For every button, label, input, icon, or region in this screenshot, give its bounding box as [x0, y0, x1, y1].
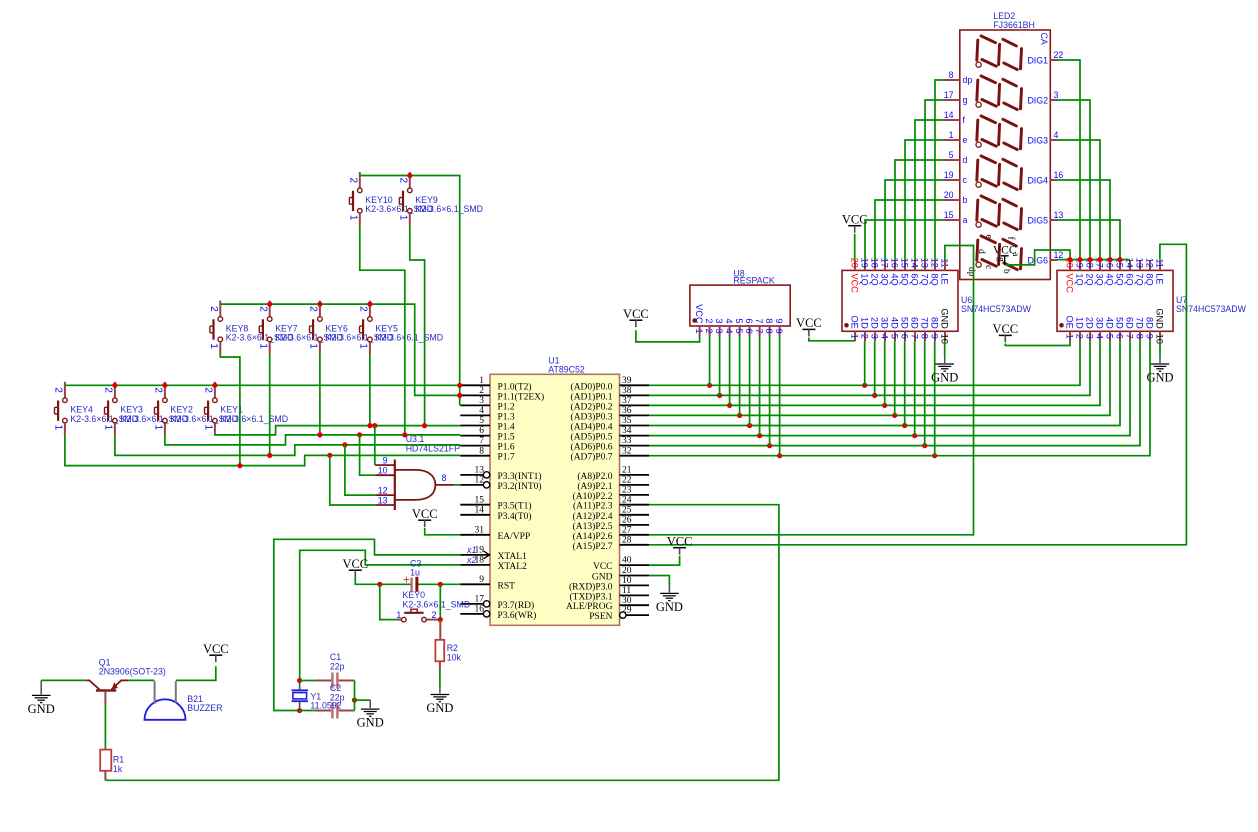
svg-text:13: 13: [1135, 258, 1145, 268]
svg-text:4: 4: [724, 329, 734, 334]
svg-text:VCC: VCC: [1065, 273, 1075, 293]
svg-text:5: 5: [734, 318, 744, 323]
svg-text:P3.2(INT0): P3.2(INT0): [498, 481, 542, 492]
svg-text:5Q: 5Q: [1115, 273, 1125, 285]
svg-text:c: c: [983, 265, 993, 269]
svg-text:P1.5: P1.5: [498, 433, 515, 443]
svg-text:+: +: [403, 575, 410, 587]
svg-text:8: 8: [764, 329, 774, 334]
svg-text:VCC: VCC: [412, 507, 438, 521]
svg-text:4: 4: [1095, 334, 1105, 339]
svg-text:g: g: [963, 95, 968, 105]
svg-text:b: b: [1001, 269, 1011, 274]
svg-text:7: 7: [479, 436, 484, 446]
svg-text:GND: GND: [592, 573, 613, 583]
svg-text:(AD1)P0.1: (AD1)P0.1: [571, 391, 613, 402]
svg-text:17: 17: [475, 595, 485, 605]
svg-text:1: 1: [203, 425, 214, 431]
svg-text:7D: 7D: [1135, 317, 1145, 329]
svg-text:5: 5: [479, 416, 484, 426]
svg-text:3: 3: [479, 396, 484, 406]
svg-text:6: 6: [1115, 334, 1125, 339]
svg-text:VCC: VCC: [796, 316, 822, 330]
svg-text:VCC: VCC: [203, 642, 229, 656]
svg-text:P3.6(WR): P3.6(WR): [498, 610, 537, 621]
svg-text:6Q: 6Q: [1125, 273, 1135, 285]
svg-text:12: 12: [475, 476, 485, 486]
svg-text:P3.7(RD): P3.7(RD): [498, 600, 535, 611]
svg-text:27: 27: [622, 525, 632, 535]
svg-text:(A13)P2.5: (A13)P2.5: [573, 521, 613, 532]
svg-text:(A8)P2.0: (A8)P2.0: [577, 471, 612, 482]
svg-text:3: 3: [1085, 334, 1095, 339]
svg-text:K2-3.6×6.1_SMD: K2-3.6×6.1_SMD: [375, 333, 443, 343]
svg-text:20: 20: [944, 190, 954, 200]
svg-text:VCC: VCC: [993, 245, 1017, 257]
svg-text:P1.2: P1.2: [498, 402, 515, 412]
svg-text:(A10)P2.2: (A10)P2.2: [573, 491, 613, 502]
svg-text:1: 1: [479, 376, 484, 386]
svg-text:2: 2: [704, 318, 714, 323]
svg-text:2: 2: [398, 178, 409, 184]
svg-text:7D: 7D: [920, 317, 930, 329]
svg-text:(AD5)P0.5: (AD5)P0.5: [571, 432, 613, 443]
svg-text:6D: 6D: [1125, 317, 1135, 329]
svg-text:(RXD)P3.0: (RXD)P3.0: [569, 581, 613, 592]
svg-text:3D: 3D: [880, 317, 890, 329]
svg-text:4Q: 4Q: [890, 273, 900, 285]
svg-text:1: 1: [850, 334, 860, 339]
svg-text:3: 3: [714, 329, 724, 334]
svg-text:32: 32: [622, 446, 632, 456]
svg-text:RST: RST: [498, 581, 516, 591]
svg-text:16: 16: [1054, 170, 1064, 180]
svg-text:2D: 2D: [1085, 317, 1095, 329]
svg-text:VCC: VCC: [850, 273, 860, 293]
svg-text:a: a: [963, 215, 968, 225]
svg-text:GND: GND: [656, 600, 683, 614]
svg-text:15: 15: [944, 210, 954, 220]
svg-text:SN74HC573ADW: SN74HC573ADW: [961, 304, 1032, 314]
svg-text:23: 23: [622, 486, 632, 496]
svg-text:VCC: VCC: [694, 304, 704, 324]
svg-text:4: 4: [880, 334, 890, 339]
svg-text:(A14)P2.6: (A14)P2.6: [573, 531, 613, 542]
svg-text:c: c: [963, 175, 968, 185]
svg-text:GND: GND: [931, 371, 958, 385]
svg-text:2: 2: [203, 387, 214, 393]
svg-text:(AD7)P0.7: (AD7)P0.7: [571, 452, 613, 463]
svg-text:2N3906(SOT-23): 2N3906(SOT-23): [99, 667, 166, 677]
svg-text:14: 14: [475, 505, 485, 515]
svg-text:2: 2: [53, 387, 64, 393]
svg-text:8D: 8D: [1145, 317, 1155, 329]
svg-text:3: 3: [1054, 90, 1059, 100]
svg-text:K2-3.6×6.1_SMD: K2-3.6×6.1_SMD: [403, 599, 471, 609]
svg-text:33: 33: [622, 436, 632, 446]
svg-text:8: 8: [920, 334, 930, 339]
svg-text:9: 9: [774, 318, 784, 323]
svg-text:P1.4: P1.4: [498, 423, 515, 433]
svg-text:3: 3: [870, 334, 880, 339]
svg-text:(AD3)P0.3: (AD3)P0.3: [571, 411, 613, 422]
svg-text:VCC: VCC: [593, 562, 613, 572]
svg-text:7: 7: [754, 318, 764, 323]
svg-text:37: 37: [622, 396, 632, 406]
svg-text:2: 2: [153, 387, 164, 393]
svg-text:8: 8: [764, 318, 774, 323]
svg-text:17: 17: [944, 90, 954, 100]
svg-text:10: 10: [378, 466, 388, 476]
svg-text:(AD2)P0.2: (AD2)P0.2: [571, 401, 613, 412]
svg-text:(AD4)P0.4: (AD4)P0.4: [571, 422, 613, 433]
svg-text:9: 9: [774, 329, 784, 334]
svg-text:DIG2: DIG2: [1027, 95, 1048, 105]
svg-text:LE: LE: [940, 273, 950, 284]
svg-text:K2-3.6×6.1_SMD: K2-3.6×6.1_SMD: [415, 204, 483, 214]
svg-text:P3.4(T0): P3.4(T0): [498, 511, 532, 522]
svg-text:FJ3661BH: FJ3661BH: [993, 20, 1035, 30]
svg-text:5: 5: [949, 150, 954, 160]
svg-text:P1.7: P1.7: [498, 453, 515, 463]
svg-text:4D: 4D: [1105, 317, 1115, 329]
svg-text:b: b: [963, 195, 968, 205]
svg-text:1D: 1D: [1075, 317, 1085, 329]
svg-text:P1.1(T2EX): P1.1(T2EX): [498, 391, 545, 402]
svg-text:8: 8: [949, 70, 954, 80]
svg-text:12: 12: [1054, 250, 1064, 260]
svg-text:10: 10: [622, 576, 632, 586]
svg-text:35: 35: [622, 416, 632, 426]
svg-text:12: 12: [378, 485, 388, 495]
svg-text:d: d: [963, 155, 968, 165]
svg-text:e: e: [984, 235, 994, 239]
svg-text:4Q: 4Q: [1105, 273, 1115, 285]
svg-text:DIG4: DIG4: [1027, 175, 1048, 185]
svg-text:7: 7: [754, 329, 764, 334]
svg-text:GND: GND: [940, 308, 950, 329]
svg-text:OE: OE: [1065, 316, 1075, 329]
svg-text:7: 7: [1125, 334, 1135, 339]
svg-text:(AD6)P0.6: (AD6)P0.6: [571, 442, 613, 453]
svg-text:5D: 5D: [1115, 317, 1125, 329]
svg-text:7: 7: [910, 334, 920, 339]
svg-text:2: 2: [358, 306, 369, 312]
svg-text:20: 20: [622, 566, 632, 576]
svg-text:3: 3: [714, 318, 724, 323]
svg-text:3Q: 3Q: [880, 273, 890, 285]
svg-text:8Q: 8Q: [1145, 273, 1155, 285]
svg-text:1D: 1D: [860, 317, 870, 329]
svg-text:P1.0(T2): P1.0(T2): [498, 381, 532, 392]
svg-text:22: 22: [1054, 50, 1064, 60]
svg-text:e: e: [963, 135, 968, 145]
svg-text:6: 6: [744, 318, 754, 323]
svg-text:(AD0)P0.0: (AD0)P0.0: [571, 381, 613, 392]
svg-text:4: 4: [479, 406, 484, 416]
svg-text:(A12)P2.4: (A12)P2.4: [573, 511, 613, 522]
svg-text:22p: 22p: [330, 692, 345, 702]
svg-text:9: 9: [383, 455, 388, 465]
svg-text:PSEN: PSEN: [589, 612, 612, 622]
svg-text:LE: LE: [1155, 273, 1165, 284]
svg-text:40: 40: [622, 556, 632, 566]
svg-text:1u: 1u: [410, 568, 420, 578]
svg-text:ALE/PROG: ALE/PROG: [566, 602, 613, 612]
svg-text:8Q: 8Q: [930, 273, 940, 285]
svg-text:RESPACK: RESPACK: [733, 276, 775, 286]
svg-text:36: 36: [622, 406, 632, 416]
svg-text:5D: 5D: [900, 317, 910, 329]
svg-text:11: 11: [622, 586, 631, 596]
svg-text:VCC: VCC: [623, 307, 649, 321]
svg-text:2: 2: [860, 334, 870, 339]
svg-text:7Q: 7Q: [1135, 273, 1145, 285]
svg-text:15: 15: [475, 495, 485, 505]
svg-text:1: 1: [396, 610, 401, 620]
svg-text:GND: GND: [28, 702, 55, 716]
svg-text:39: 39: [622, 376, 632, 386]
svg-text:2: 2: [704, 329, 714, 334]
svg-text:d: d: [976, 249, 986, 254]
svg-text:1Q: 1Q: [860, 273, 870, 285]
svg-text:22p: 22p: [330, 661, 345, 671]
svg-text:GND: GND: [1155, 308, 1165, 329]
svg-text:1: 1: [258, 343, 269, 349]
svg-text:1: 1: [308, 343, 319, 349]
svg-text:34: 34: [622, 426, 632, 436]
svg-text:x1: x1: [466, 545, 477, 555]
svg-text:26: 26: [622, 516, 632, 526]
svg-text:5Q: 5Q: [900, 273, 910, 285]
svg-text:2D: 2D: [870, 317, 880, 329]
svg-text:EA/VPP: EA/VPP: [498, 532, 531, 542]
svg-text:GND: GND: [1146, 371, 1173, 385]
svg-text:DIG1: DIG1: [1027, 55, 1048, 65]
svg-text:1: 1: [103, 425, 114, 431]
svg-text:3D: 3D: [1095, 317, 1105, 329]
svg-text:14: 14: [944, 110, 954, 120]
svg-text:4: 4: [1054, 130, 1059, 140]
svg-text:DIG5: DIG5: [1027, 215, 1048, 225]
svg-text:12: 12: [1145, 258, 1155, 268]
svg-text:dp: dp: [963, 75, 973, 85]
svg-text:1: 1: [358, 343, 369, 349]
svg-text:10k: 10k: [447, 652, 462, 662]
svg-text:5: 5: [734, 329, 744, 334]
svg-text:1Q: 1Q: [1075, 273, 1085, 285]
svg-text:9: 9: [1145, 334, 1155, 339]
svg-text:30: 30: [622, 596, 632, 606]
svg-text:8: 8: [442, 473, 447, 483]
svg-text:7Q: 7Q: [920, 273, 930, 285]
svg-text:1: 1: [153, 425, 164, 431]
svg-text:5: 5: [1105, 334, 1115, 339]
svg-text:1: 1: [694, 329, 704, 334]
svg-text:6D: 6D: [910, 317, 920, 329]
svg-text:8: 8: [1135, 334, 1145, 339]
svg-text:(A15)P2.7: (A15)P2.7: [573, 541, 613, 552]
svg-text:2: 2: [308, 306, 319, 312]
svg-text:38: 38: [622, 386, 632, 396]
svg-text:8: 8: [479, 446, 484, 456]
svg-text:DIG3: DIG3: [1027, 135, 1048, 145]
svg-text:31: 31: [475, 525, 485, 535]
svg-text:13: 13: [475, 466, 485, 476]
svg-text:24: 24: [622, 495, 632, 505]
svg-text:19: 19: [944, 170, 954, 180]
svg-text:(A11)P2.3: (A11)P2.3: [573, 501, 613, 512]
svg-text:16: 16: [475, 605, 485, 615]
svg-text:GND: GND: [357, 716, 384, 730]
svg-text:2: 2: [348, 178, 359, 184]
svg-text:13: 13: [378, 495, 388, 505]
svg-text:P1.3: P1.3: [498, 412, 515, 422]
svg-text:1: 1: [53, 425, 64, 431]
svg-text:OE: OE: [850, 316, 860, 329]
svg-text:P3.3(INT1): P3.3(INT1): [498, 471, 542, 482]
svg-text:1: 1: [949, 130, 954, 140]
svg-text:x2: x2: [466, 555, 477, 565]
svg-text:1: 1: [1065, 334, 1075, 339]
svg-text:2Q: 2Q: [1085, 273, 1095, 285]
svg-text:XTAL1: XTAL1: [498, 552, 528, 562]
svg-text:2Q: 2Q: [870, 273, 880, 285]
svg-text:XTAL2: XTAL2: [498, 562, 528, 572]
svg-text:VCC: VCC: [342, 557, 368, 571]
svg-text:2: 2: [208, 306, 219, 312]
svg-text:K2-3.6×6.1_SMD: K2-3.6×6.1_SMD: [220, 414, 288, 424]
svg-text:VCC: VCC: [842, 213, 868, 227]
svg-text:dp: dp: [966, 267, 976, 277]
svg-text:1: 1: [208, 343, 219, 349]
svg-text:6: 6: [900, 334, 910, 339]
svg-text:VCC: VCC: [667, 535, 693, 549]
svg-text:2: 2: [479, 386, 484, 396]
svg-text:6: 6: [479, 426, 484, 436]
svg-text:(A9)P2.1: (A9)P2.1: [577, 481, 612, 492]
svg-text:BUZZER: BUZZER: [187, 703, 222, 713]
svg-text:1k: 1k: [113, 764, 123, 774]
svg-text:2: 2: [258, 306, 269, 312]
svg-text:VCC: VCC: [992, 322, 1018, 336]
svg-text:2: 2: [432, 610, 437, 620]
svg-text:3Q: 3Q: [1095, 273, 1105, 285]
svg-text:4: 4: [724, 318, 734, 323]
svg-text:P3.5(T1): P3.5(T1): [498, 501, 532, 512]
svg-text:CA: CA: [1039, 33, 1049, 45]
svg-text:1: 1: [348, 215, 359, 221]
svg-text:4D: 4D: [890, 317, 900, 329]
svg-text:8D: 8D: [930, 317, 940, 329]
svg-text:2: 2: [103, 387, 114, 393]
svg-text:9: 9: [479, 575, 484, 585]
svg-text:2: 2: [1075, 334, 1085, 339]
svg-text:28: 28: [622, 535, 632, 545]
svg-text:21: 21: [622, 466, 632, 476]
svg-text:13: 13: [1054, 210, 1064, 220]
svg-text:6: 6: [744, 329, 754, 334]
svg-text:1: 1: [398, 215, 409, 221]
svg-text:(TXD)P3.1: (TXD)P3.1: [569, 591, 612, 602]
svg-text:GND: GND: [426, 701, 453, 715]
svg-text:DIG6: DIG6: [1027, 255, 1048, 265]
svg-text:22: 22: [622, 476, 632, 486]
svg-text:6Q: 6Q: [910, 273, 920, 285]
svg-text:25: 25: [622, 505, 632, 515]
svg-text:5: 5: [890, 334, 900, 339]
svg-text:AT89C52: AT89C52: [548, 364, 585, 374]
svg-text:P1.6: P1.6: [498, 443, 515, 453]
svg-text:29: 29: [622, 606, 632, 616]
svg-text:9: 9: [930, 334, 940, 339]
